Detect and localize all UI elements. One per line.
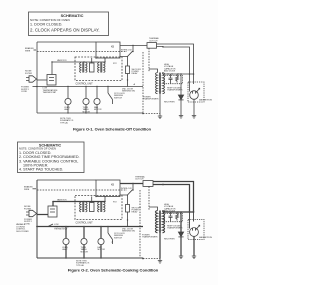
PANEL 2 — [16, 175, 213, 267]
wire control box stub — [104, 58, 106, 62]
wire thermal cutout outer feed bold — [153, 182, 194, 213]
svg-text:MAGNETRON: MAGNETRON — [199, 236, 213, 239]
HV transformer core — [159, 73, 160, 94]
node bottom c — [100, 257, 102, 259]
wire bottom rail bold — [37, 257, 143, 259]
transformer T2 primary — [98, 63, 100, 73]
svg-text:SENSING SW.: SENSING SW. — [122, 231, 136, 233]
oven lamp L1 — [65, 98, 71, 104]
svg-text:CUTOUT: CUTOUT — [135, 179, 144, 181]
wire dashed riser 2 — [148, 48, 150, 72]
fan motor M2 — [94, 98, 100, 104]
braided wire tick — [33, 188, 37, 190]
magnetron V1 — [190, 91, 199, 100]
wire HV rail bold — [163, 211, 194, 213]
wire mid rail — [37, 86, 143, 88]
capacitor C1 — [169, 212, 173, 221]
wire magnetron to ground — [193, 99, 195, 115]
node lv a — [83, 201, 84, 202]
HV transformer core — [159, 211, 160, 233]
node hv e — [189, 211, 191, 213]
node LV riser — [52, 201, 54, 203]
wire turntable stem top bold — [83, 227, 85, 239]
node hv b — [171, 73, 172, 74]
magnetron filament bold — [190, 212, 196, 231]
wire interlock stub — [132, 46, 134, 52]
wire turntable stem bottom bold — [83, 245, 85, 258]
node bottom a — [65, 257, 67, 259]
diode D1 — [178, 95, 183, 100]
bleeder resistor R1 — [176, 212, 179, 221]
node hv e — [189, 73, 191, 75]
node mid left — [36, 86, 38, 88]
transformer T1 secondary — [86, 202, 88, 212]
diode D1 bar — [178, 236, 183, 238]
magnetron antenna — [196, 225, 200, 229]
svg-text:4. START PAD TOUCHED.: 4. START PAD TOUCHED. — [19, 168, 63, 172]
transformer T1 secondary — [86, 63, 88, 73]
wire dashed riser 1 — [142, 52, 144, 113]
wire fan stem bottom — [96, 105, 98, 113]
magnetron V1 — [190, 228, 199, 237]
svg-text:Figure O-2. Oven Schematic-Coo: Figure O-2. Oven Schematic-Cooking Condi… — [68, 267, 159, 272]
magnetron V1 dashed box — [188, 82, 204, 102]
svg-text:LAMP: LAMP — [62, 248, 68, 251]
wire lamp stem top bold — [65, 227, 67, 239]
node bottom c — [96, 112, 97, 113]
svg-text:RY2: RY2 — [113, 201, 117, 203]
thermal cutout TC1 — [147, 43, 157, 49]
node interlock top — [132, 45, 133, 46]
node hv a — [167, 211, 169, 213]
svg-text:WIRE: WIRE — [25, 50, 31, 52]
control unit dashed box — [75, 196, 122, 220]
wire left border L line bold — [36, 180, 38, 258]
turntable motor M1 — [83, 98, 89, 104]
ground chassis 1 — [158, 114, 162, 119]
ground diode — [179, 116, 183, 119]
diode D1 lead bold — [180, 212, 182, 232]
svg-text:2. CLOCK APPEARS ON DISPLAY.: 2. CLOCK APPEARS ON DISPLAY. — [30, 27, 100, 32]
wire magnetron to ground bold — [193, 236, 195, 256]
wire top rail bold — [37, 179, 96, 181]
svg-text:KB: KB — [111, 47, 115, 49]
wire HV rail — [163, 73, 194, 75]
capacitor C1 — [169, 74, 173, 83]
node lamp — [65, 226, 67, 228]
wire control box stub — [104, 197, 106, 202]
fuse F1 — [90, 63, 95, 72]
diode D1 lead — [180, 74, 182, 95]
wire relay to rail — [127, 74, 129, 87]
wire thermal cutout inner feed bold — [153, 185, 190, 213]
transformer T2 secondary — [104, 202, 106, 212]
power plug P1 — [26, 76, 37, 82]
magnetron antenna — [196, 88, 200, 92]
HV transformer secondary coil — [163, 73, 165, 94]
svg-text:MOTOR: MOTOR — [98, 249, 106, 251]
node lv a — [83, 61, 84, 62]
svg-text:RELAY: RELAY — [132, 72, 139, 75]
svg-text:LAMP: LAMP — [64, 108, 70, 111]
svg-text:MAGNETRON: MAGNETRON — [199, 99, 213, 102]
node hv d — [180, 211, 182, 213]
wire diode to ground — [180, 100, 182, 116]
HV transformer secondary coil bold — [163, 211, 165, 233]
wire relay to thermal cutout bold — [120, 183, 143, 185]
wire dashed riser 1 — [139, 190, 141, 258]
wire thermal cutout outer feed — [157, 44, 194, 74]
wire relay feed — [120, 195, 128, 205]
power plug P1 — [26, 210, 37, 216]
node hv d — [180, 73, 181, 74]
ground magnetron — [192, 256, 196, 259]
node bottom b — [85, 112, 86, 113]
thermal cutout TC1 — [143, 181, 153, 187]
wire left border L line — [36, 42, 38, 113]
node turntable — [85, 86, 86, 87]
node lv b — [104, 201, 105, 202]
svg-text:MOTOR: MOTOR — [94, 109, 102, 111]
capacitor C1 dashed box — [165, 76, 183, 84]
touch control panel box KB — [96, 42, 120, 58]
touch control panel box KB — [96, 180, 120, 197]
PANEL 1 — [21, 37, 213, 124]
svg-text:INTERLOCK: INTERLOCK — [121, 188, 133, 190]
wire relay to rail — [127, 212, 129, 227]
svg-text:AND DIODE: AND DIODE — [164, 209, 176, 212]
svg-text:RECTIFIER: RECTIFIER — [164, 102, 175, 104]
svg-text:KB: KB — [111, 185, 115, 187]
wire lamp stem top — [67, 87, 69, 99]
wire border to filter bold — [37, 214, 48, 216]
wire transformer bottom lead — [159, 94, 161, 114]
svg-text:FILTER: FILTER — [25, 73, 33, 75]
svg-text:RY2: RY2 — [113, 63, 117, 65]
node on control box bottom 2 — [95, 196, 96, 197]
transformer T1 primary — [80, 202, 82, 212]
interlock switch SW1 — [127, 51, 133, 57]
node hv f — [193, 73, 195, 75]
wire lamp stem bottom bold — [65, 245, 67, 258]
node corner — [162, 46, 164, 48]
turntable motor M1 — [81, 238, 87, 244]
wire bottom dashed tail — [143, 113, 160, 115]
wire fan stem top bold — [100, 227, 102, 239]
svg-text:1. DOOR CLOSED.: 1. DOOR CLOSED. — [30, 23, 62, 27]
relay coil RY — [126, 66, 130, 74]
filter internals — [50, 209, 55, 212]
magnetron V1 dashed box — [188, 220, 204, 240]
svg-text:INTERLOCK: INTERLOCK — [121, 50, 133, 52]
svg-text:100% POWER.: 100% POWER. — [23, 163, 48, 167]
transformer T2 secondary — [104, 63, 106, 73]
transformer T1 core — [83, 202, 84, 212]
svg-text:THERMOSTAT: THERMOSTAT — [43, 91, 57, 94]
ground chassis 1 — [158, 259, 162, 264]
wire bottom rail — [37, 112, 143, 114]
node interlock bottom — [132, 189, 133, 190]
node corner — [162, 184, 164, 186]
wire filter to LV riser — [51, 62, 53, 75]
wire border to filter — [37, 79, 47, 81]
svg-text:VARISTOR: VARISTOR — [57, 59, 67, 62]
relay coil RY — [126, 205, 130, 213]
wire filter to LV riser — [52, 202, 54, 207]
wire dashed riser 2 — [148, 187, 150, 211]
transformer T2 core — [101, 202, 102, 212]
transformer T1 core — [83, 63, 84, 73]
svg-text:SWITCH: SWITCH — [114, 97, 122, 99]
node hv f — [193, 211, 195, 213]
noise filter unit box — [47, 75, 56, 86]
wire neutral dashed rail — [37, 189, 127, 191]
note box 2 — [18, 142, 85, 173]
ground diode — [179, 256, 183, 259]
node bottom b — [83, 257, 85, 259]
node hv c — [177, 211, 179, 213]
thermostat switch — [48, 224, 53, 227]
svg-text:CORD: CORD — [21, 91, 28, 93]
svg-text:A: A — [134, 83, 136, 86]
node mid left — [36, 226, 38, 228]
fuse F1 lead — [91, 197, 93, 203]
wire transformer top leads — [149, 69, 163, 74]
note box 1 — [29, 12, 109, 36]
node LV riser — [51, 61, 52, 62]
node on control box bottom — [104, 57, 105, 58]
node fan — [100, 226, 102, 228]
transformer T1 primary — [80, 63, 82, 73]
node interlock top — [132, 183, 133, 184]
HV transformer primary coil — [155, 73, 157, 94]
wire thermal cutout inner feed — [157, 47, 190, 75]
wire bottom dashed tail — [143, 258, 160, 260]
oven lamp L1 — [63, 238, 69, 244]
node door switch — [107, 86, 108, 87]
wire interlock stub — [132, 184, 134, 191]
node on control box bottom — [104, 196, 105, 197]
bleeder resistor R1 — [176, 74, 179, 83]
svg-text:RELAY: RELAY — [132, 211, 139, 214]
ground magnetron — [192, 116, 196, 119]
wire turntable stem bottom — [85, 105, 87, 113]
wire mid rail bold — [37, 226, 143, 228]
filter internals — [49, 78, 54, 81]
fuse F1 lead — [91, 58, 93, 63]
transformer T2 primary — [98, 202, 100, 212]
svg-text:MOTOR: MOTOR — [81, 251, 89, 253]
svg-text:WIRE: WIRE — [24, 189, 30, 191]
door sensing switch SW2 — [108, 87, 113, 105]
node door switch — [107, 226, 109, 228]
interlock switch SW1 — [127, 190, 133, 196]
svg-text:TRANSFORMER: TRANSFORMER — [143, 98, 159, 101]
wire relay feed — [120, 57, 128, 67]
node bottom tail — [142, 258, 144, 260]
wire turntable stem top — [85, 87, 87, 99]
wire neutral dashed rail — [37, 51, 127, 53]
node bottom tail — [142, 113, 144, 115]
node lamp — [67, 86, 68, 87]
svg-text:SWITCH: SWITCH — [114, 237, 122, 239]
node lv b — [104, 61, 105, 62]
fuse F1 — [90, 203, 95, 212]
wire diode to ground bold — [180, 237, 182, 256]
diode D1 — [178, 232, 183, 237]
wire stub left — [33, 86, 38, 88]
wire LV feed — [53, 201, 105, 203]
node hv a — [167, 73, 168, 74]
wire relay to thermal cutout — [120, 45, 147, 47]
transformer T2 core — [101, 63, 102, 73]
svg-text:100% POWER: 100% POWER — [16, 231, 29, 233]
svg-text:RECTIFIER: RECTIFIER — [164, 239, 175, 241]
wire lamp stem bottom — [67, 105, 69, 113]
wire transformer top leads — [149, 207, 163, 212]
wire top rail — [37, 41, 96, 43]
node relay rail — [127, 79, 128, 80]
noise filter unit box — [48, 206, 57, 217]
svg-text:VARISTOR: VARISTOR — [57, 198, 67, 201]
svg-text:TYPICAL: TYPICAL — [60, 121, 68, 124]
node interlock bottom — [132, 51, 133, 52]
wire LV feed — [52, 61, 105, 63]
node bottom a — [67, 112, 68, 113]
diode D1 bar — [178, 99, 183, 101]
wire fan stem bottom bold — [100, 245, 102, 258]
node relay rail — [127, 219, 128, 220]
door sensing switch SW2 — [108, 227, 113, 245]
svg-text:AND DIODE: AND DIODE — [164, 70, 176, 73]
wire transformer bottom lead bold — [159, 233, 161, 259]
control unit dashed box — [75, 57, 122, 81]
HV transformer primary coil bold — [155, 211, 157, 233]
wire fan stem top — [96, 87, 98, 99]
capacitor C1 dashed box — [165, 214, 183, 222]
svg-text:Figure O-1. Oven Schematic-Off: Figure O-1. Oven Schematic-Off Condition — [73, 126, 152, 131]
svg-text:CUTOUT: CUTOUT — [149, 41, 158, 43]
node turntable — [83, 226, 85, 228]
node fan — [96, 86, 97, 87]
magnetron filament — [190, 74, 196, 94]
node hv b — [171, 211, 173, 213]
braided wire tick — [34, 49, 37, 51]
svg-text:CONTROL UNIT: CONTROL UNIT — [76, 222, 94, 224]
fan motor M2 — [98, 238, 104, 244]
svg-text:TRANSFORMER: TRANSFORMER — [142, 236, 158, 239]
node hv c — [177, 73, 178, 74]
svg-text:NOTE: CONDITION OF OVEN: NOTE: CONDITION OF OVEN — [30, 18, 70, 22]
node on control box bottom 2 — [95, 57, 96, 58]
svg-text:CONTROL UNIT: CONTROL UNIT — [76, 84, 94, 86]
svg-text:SENSING SW.: SENSING SW. — [122, 91, 136, 93]
